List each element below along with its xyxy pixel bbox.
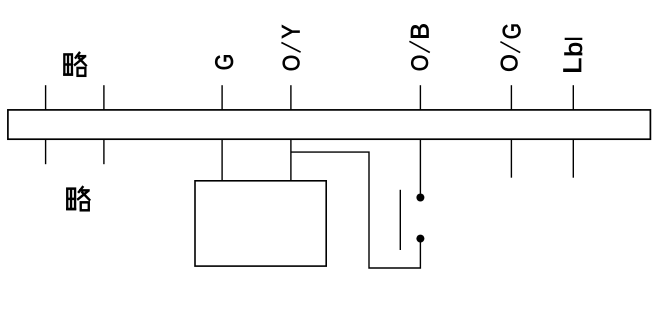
svg-text:O: O — [278, 55, 304, 72]
svg-text:B: B — [406, 23, 434, 40]
svg-text:G: G — [497, 23, 525, 39]
svg-text:Y: Y — [277, 25, 305, 39]
svg-text:G: G — [210, 54, 238, 71]
svg-text:O: O — [407, 55, 433, 72]
svg-text:L: L — [558, 58, 587, 74]
svg-text:l: l — [561, 37, 588, 41]
svg-text:b: b — [561, 42, 587, 57]
svg-text:O: O — [496, 54, 522, 72]
